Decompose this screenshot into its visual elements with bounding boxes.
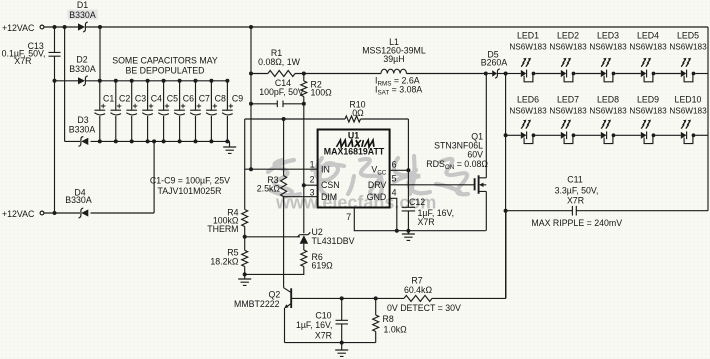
svg-text:D3: D3	[77, 115, 88, 125]
svg-text:THERM: THERM	[207, 224, 238, 234]
wire R4 thermistor column	[244, 119, 246, 210]
svg-text:C10: C10	[315, 310, 331, 320]
svg-text:C1-C9 = 100µF, 25V: C1-C9 = 100µF, 25V	[150, 176, 230, 186]
diode D4 B330A	[81, 209, 88, 216]
junction dot(s)	[302, 183, 306, 187]
svg-text:MAX16819ATT: MAX16819ATT	[324, 147, 385, 157]
svg-text:LED4: LED4	[637, 31, 659, 41]
svg-text:60V: 60V	[467, 150, 483, 160]
svg-text:R8: R8	[383, 314, 394, 324]
capacitor C11 3.3uF 50V X7R and output line	[506, 210, 708, 212]
capacitor C13	[54, 27, 56, 213]
shunt regulator U2 TL431DBV	[297, 232, 310, 237]
wire DIM line to U1 pin 3	[284, 196, 318, 198]
LED row 1: LED1-LED5 NS6W183	[506, 73, 521, 75]
svg-text:1: 1	[310, 160, 315, 170]
LED6 NS6W183	[521, 132, 527, 139]
svg-text:D1: D1	[77, 0, 88, 10]
svg-text:LED7: LED7	[557, 95, 579, 105]
diode D3 B330A	[81, 138, 88, 145]
wire cap bank top (+V) line	[55, 80, 228, 82]
svg-text:0V DETECT = 30V: 0V DETECT = 30V	[387, 303, 461, 313]
svg-text:1.0kΩ: 1.0kΩ	[384, 325, 408, 335]
svg-text:DRV: DRV	[368, 180, 387, 190]
svg-text:+12VAC: +12VAC	[2, 23, 35, 33]
wire LED+ column (D5 cathode to row2/C11/R7)	[505, 74, 507, 299]
svg-text:X7R: X7R	[315, 331, 332, 341]
svg-text:100Ω: 100Ω	[311, 88, 333, 98]
svg-text:NS6W183: NS6W183	[589, 107, 627, 116]
svg-text:NS6W183: NS6W183	[629, 43, 667, 52]
junction dot(s)	[395, 229, 399, 233]
junction dot(s)	[302, 102, 306, 106]
diode D2 B330A	[78, 77, 85, 84]
junction dot(s)	[243, 272, 247, 276]
ground (below R5)	[244, 274, 246, 279]
wire DRV pin 5 to Q1 gate	[390, 184, 475, 186]
wire 0V-detect divider line	[342, 211, 506, 299]
wire Q2 emitter ground rail	[285, 342, 376, 344]
transistor Q1 STN3NF06L (MOSFET)	[474, 178, 476, 190]
svg-text:NS6W183: NS6W183	[589, 43, 627, 52]
wire rectified + column	[99, 27, 101, 81]
terminal +12VAC (top)	[40, 25, 44, 29]
junction dots on AC1 rail	[53, 25, 57, 29]
svg-text:LED9: LED9	[637, 95, 659, 105]
wire main sense/inductor line	[251, 73, 486, 75]
junction dot(s)	[504, 72, 508, 76]
resistor R8 1.0kohm	[375, 298, 377, 315]
wire pin 7 pad to ground line	[354, 208, 486, 231]
svg-text:C4: C4	[151, 94, 162, 104]
junction dot(s)	[302, 72, 306, 76]
svg-text:NS6W183: NS6W183	[549, 43, 587, 52]
junction dot(s)	[340, 296, 344, 300]
svg-text:100pF, 50V: 100pF, 50V	[259, 87, 304, 97]
wire cap bank bottom (GND) line	[65, 140, 230, 142]
svg-text:C2: C2	[119, 94, 130, 104]
svg-text:2: 2	[310, 175, 315, 185]
junction dot(s)	[53, 211, 57, 215]
svg-text:NS6W183: NS6W183	[549, 107, 587, 116]
wire right rail (LED return to VIN)	[707, 27, 709, 211]
svg-text:DIM: DIM	[321, 192, 337, 202]
wire CSN column (R2/C14 node to TL431)	[303, 104, 305, 233]
svg-text:C6: C6	[183, 94, 194, 104]
LED2 NS6W183	[561, 70, 567, 77]
LED7 NS6W183	[561, 132, 567, 139]
svg-text:C8: C8	[215, 94, 226, 104]
svg-text:60.4kΩ: 60.4kΩ	[404, 285, 433, 295]
svg-text:0Ω: 0Ω	[352, 108, 364, 118]
svg-text:U1: U1	[348, 130, 359, 140]
svg-text:B330A: B330A	[69, 64, 96, 74]
svg-text:RDSON = 0.08Ω: RDSON = 0.08Ω	[426, 159, 488, 171]
svg-text:5: 5	[392, 174, 397, 184]
junction dot(s)	[282, 117, 286, 121]
capacitors C1-C9 100uF 25V	[99, 81, 101, 142]
svg-text:MMBT2222: MMBT2222	[234, 299, 280, 309]
svg-text:3: 3	[310, 188, 315, 198]
resistor R1 0.08ohm 1W	[268, 71, 295, 77]
LED row 2: LED6-LED10 NS6W183	[506, 134, 521, 136]
svg-text:TAJV101M025R: TAJV101M025R	[158, 186, 222, 196]
svg-text:1µF, 16V,: 1µF, 16V,	[296, 320, 333, 330]
svg-text:LED10: LED10	[675, 95, 702, 105]
svg-text:LED5: LED5	[677, 31, 699, 41]
svg-text:MAX RIPPLE = 240mV: MAX RIPPLE = 240mV	[531, 218, 622, 228]
svg-text:18.2kΩ: 18.2kΩ	[210, 257, 239, 267]
IC U1 MAX16819ATT	[318, 130, 390, 208]
wire DIM to Q2 collector column	[283, 197, 285, 288]
ground (cap bank)	[229, 141, 231, 147]
inductor L1 MSS1260-39ML	[381, 69, 406, 73]
svg-text:0.08Ω, 1W: 0.08Ω, 1W	[258, 57, 300, 67]
svg-text:X7R: X7R	[418, 217, 435, 227]
capacitor C10 1uF 16V X7R	[341, 298, 343, 342]
svg-text:NS6W183: NS6W183	[629, 107, 667, 116]
ground (below C12)	[407, 231, 409, 234]
svg-text:C3: C3	[135, 94, 146, 104]
svg-text:C11: C11	[567, 175, 583, 185]
wire R6/R5 ground line	[245, 267, 304, 275]
svg-text:619Ω: 619Ω	[312, 261, 334, 271]
resistor R7 60.4kohm	[404, 295, 432, 301]
svg-text:NS6W183: NS6W183	[669, 107, 707, 116]
svg-text:CSN: CSN	[321, 180, 340, 190]
diode D5 B260A	[484, 72, 488, 76]
svg-text:LED6: LED6	[517, 95, 539, 105]
svg-text:X7R: X7R	[14, 56, 31, 66]
svg-text:TL431DBV: TL431DBV	[312, 236, 355, 246]
svg-text:C5: C5	[167, 94, 178, 104]
wire AC2 bottom line	[44, 141, 154, 213]
wire VIN to R1/C14/IN column	[250, 27, 252, 169]
wire IN/R10 upper line to VCC	[245, 119, 409, 170]
svg-text:B260A: B260A	[481, 58, 508, 68]
svg-text:Q2: Q2	[269, 290, 281, 300]
svg-text:NS6W183: NS6W183	[669, 43, 707, 52]
svg-text:R7: R7	[411, 276, 422, 286]
wire IN line to U1 pin 1	[245, 168, 318, 170]
svg-text:C12: C12	[409, 197, 425, 207]
svg-text:2.5kΩ: 2.5kΩ	[257, 184, 281, 194]
watermark (decorative)	[268, 156, 468, 197]
svg-text:C9: C9	[232, 94, 243, 104]
svg-text:+12VAC: +12VAC	[2, 209, 35, 219]
wire AC1 / top rail	[44, 26, 708, 28]
svg-text:LED8: LED8	[597, 95, 619, 105]
svg-text:C1: C1	[103, 94, 114, 104]
LED4 NS6W183	[641, 70, 647, 77]
junction dot(s)	[340, 341, 344, 345]
capacitor C14 100pF 50V	[251, 103, 304, 105]
svg-text:NS6W183: NS6W183	[509, 43, 547, 52]
terminal +12VAC (bottom)	[40, 211, 44, 215]
svg-text:SOME CAPACITORS MAY: SOME CAPACITORS MAY	[112, 56, 218, 66]
junction dot(s)	[53, 79, 57, 83]
resistor R5 18.2kohm	[242, 250, 248, 266]
svg-text:LED1: LED1	[517, 31, 539, 41]
wire CSN stub to U1 pin 2	[304, 184, 318, 186]
junction dot(s)	[504, 133, 508, 137]
LED9 NS6W183	[641, 132, 647, 139]
diode D1 B330A	[78, 23, 85, 30]
wire AC1 to D3 column	[64, 27, 66, 141]
svg-text:4: 4	[392, 188, 397, 198]
LED10 NS6W183	[681, 132, 687, 139]
capacitor C12 1uF 16V X7R	[407, 170, 409, 230]
resistor R3 2.5kohm	[283, 119, 285, 176]
svg-text:6: 6	[392, 160, 397, 170]
svg-text:3.3µF, 50V,: 3.3µF, 50V,	[555, 185, 599, 195]
svg-text:C7: C7	[199, 94, 210, 104]
transistor Q2 MMBT2222	[284, 288, 291, 293]
svg-text:IN: IN	[321, 165, 330, 175]
wire GND pin 4	[390, 198, 397, 230]
resistor R10 0ohm	[345, 116, 361, 122]
svg-text:VCC: VCC	[371, 165, 386, 177]
svg-text:B330A: B330A	[65, 195, 92, 205]
svg-text:39µH: 39µH	[383, 54, 404, 64]
LED3 NS6W183	[601, 70, 607, 77]
svg-text:LED3: LED3	[597, 31, 619, 41]
LED8 NS6W183	[601, 132, 607, 139]
svg-text:D2: D2	[76, 55, 87, 65]
junction dot(s)	[243, 235, 247, 239]
svg-text:NS6W183: NS6W183	[509, 107, 547, 116]
resistor R6 619ohm	[301, 250, 307, 267]
ground (below C10)	[341, 343, 343, 350]
svg-text:7: 7	[346, 212, 351, 222]
LED1 NS6W183	[521, 70, 527, 77]
svg-text:X7R: X7R	[567, 195, 584, 205]
wire TL431 reference line	[245, 236, 300, 238]
junction dot(s)	[406, 168, 410, 172]
resistor R4 100kohm THERM	[242, 210, 248, 227]
wire VCC pin 6 stub	[390, 169, 409, 171]
svg-text:GND: GND	[367, 192, 387, 202]
junction dot(s)	[249, 25, 253, 29]
svg-text:LED2: LED2	[557, 31, 579, 41]
svg-text:B330A: B330A	[69, 10, 96, 20]
resistor R2 100ohm	[303, 74, 305, 104]
svg-text:B330A: B330A	[69, 125, 96, 135]
svg-text:BE DEPOPULATED: BE DEPOPULATED	[125, 66, 204, 76]
LED5 NS6W183	[681, 70, 687, 77]
